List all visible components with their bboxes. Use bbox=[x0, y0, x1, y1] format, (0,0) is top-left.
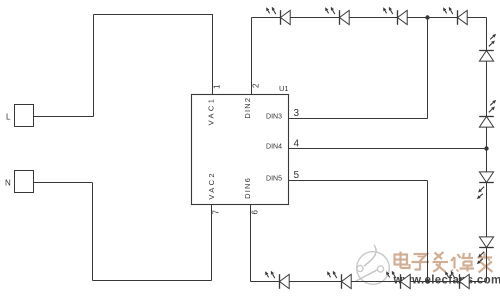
wire pin3 run bbox=[289, 118, 428, 120]
LED bottom row 2 bbox=[327, 271, 351, 289]
svg-text:VAC2: VAC2 bbox=[207, 171, 216, 200]
svg-text:DIN2: DIN2 bbox=[243, 97, 252, 119]
svg-text:1: 1 bbox=[213, 84, 222, 89]
wire pin1 drop to U1 bbox=[212, 14, 214, 95]
LED right chain A bbox=[479, 34, 496, 61]
svg-text:6: 6 bbox=[251, 210, 260, 215]
LED top row 1 bbox=[266, 7, 290, 25]
svg-text:DIN3: DIN3 bbox=[266, 113, 282, 120]
IC U1 box bbox=[192, 95, 289, 205]
wire pin2 riser bbox=[251, 18, 253, 95]
LED top row 2 bbox=[325, 7, 349, 25]
svg-text:U1: U1 bbox=[279, 84, 289, 93]
svg-text:DIN4: DIN4 bbox=[266, 144, 282, 151]
wire pin5 drop to bottom row bbox=[427, 181, 429, 282]
wire L to left riser bbox=[34, 116, 94, 118]
LED right chain C bbox=[477, 172, 494, 199]
terminal L box bbox=[15, 105, 34, 127]
wire pin6 drop bbox=[250, 205, 252, 282]
wire pin5 run bbox=[289, 180, 428, 182]
wire top-left run bbox=[94, 14, 213, 16]
LED top row 3 bbox=[383, 7, 407, 25]
junction right chain / pin4 bbox=[484, 146, 488, 150]
LED top row 4 bbox=[443, 7, 467, 25]
wire top LED row bbox=[252, 17, 487, 19]
wire pin7 drop bbox=[211, 205, 213, 281]
wire bottom LED row bbox=[251, 281, 487, 283]
watermark logo circle (elecfans mascot) bbox=[356, 245, 389, 284]
svg-text:VAC1: VAC1 bbox=[207, 97, 216, 126]
LED bottom row 3 bbox=[386, 271, 410, 289]
junction bottom row / pin5 bbox=[425, 279, 429, 283]
wire left riser up bbox=[93, 15, 95, 117]
LED bottom row 4 bbox=[445, 271, 469, 289]
wire pin4 run bbox=[289, 148, 487, 150]
wire N stub bbox=[34, 182, 93, 184]
svg-text:DIN6: DIN6 bbox=[243, 177, 252, 199]
svg-text:4: 4 bbox=[294, 138, 300, 149]
svg-text:L: L bbox=[6, 113, 11, 122]
watermark text 电子发烧友 (faked glyph strokes) bbox=[395, 252, 493, 273]
svg-text:DIN5: DIN5 bbox=[266, 175, 282, 182]
svg-text:N: N bbox=[5, 179, 11, 188]
wire right chain vertical bbox=[486, 18, 488, 282]
wire bottom-left run to pin7 bbox=[93, 280, 212, 282]
svg-text:5: 5 bbox=[294, 170, 300, 181]
terminal N box bbox=[15, 171, 34, 193]
svg-text:2: 2 bbox=[252, 83, 261, 88]
wire N riser down bbox=[92, 183, 94, 281]
wire pin3 riser to top row bbox=[427, 18, 429, 119]
LED right chain B bbox=[479, 100, 496, 127]
LED bottom row 1 bbox=[265, 271, 289, 289]
svg-text:7: 7 bbox=[212, 210, 221, 215]
junction top row / pin3 bbox=[425, 15, 429, 19]
LED right chain D bbox=[477, 237, 494, 264]
svg-text:3: 3 bbox=[294, 108, 300, 119]
